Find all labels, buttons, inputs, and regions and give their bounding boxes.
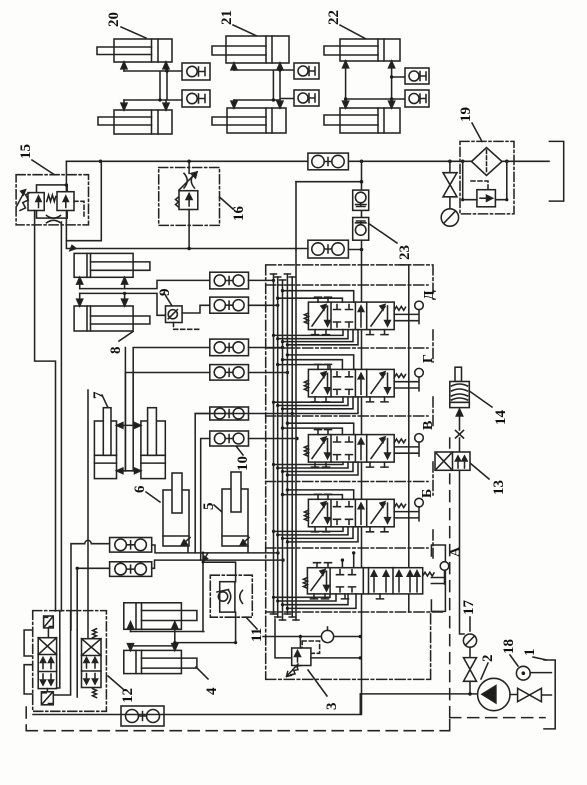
outer dashed boundary xyxy=(26,438,545,731)
cylinder 20b piston xyxy=(152,110,159,134)
wires below valve V xyxy=(274,462,359,475)
quick coupling box on main line xyxy=(308,153,349,170)
spring 16 xyxy=(176,197,179,207)
check valve box 20-1 xyxy=(182,63,210,80)
bus end bars top xyxy=(271,274,296,280)
block edge loop at left xyxy=(66,161,101,240)
flow regulator 16 xyxy=(159,161,247,250)
drain plug 18 xyxy=(501,639,551,680)
wires to valve G xyxy=(278,355,354,370)
directional valve D xyxy=(304,290,437,335)
wire y560 xyxy=(152,560,283,568)
svg-text:13: 13 xyxy=(491,480,507,495)
leader 21 xyxy=(233,25,259,37)
pilot check pair box B3 xyxy=(210,339,249,356)
cylinder 22b piston xyxy=(378,108,384,133)
cylinder 4a body xyxy=(124,603,182,630)
return line R xyxy=(400,265,409,612)
main return line xyxy=(66,160,549,162)
solenoid bottom 12a xyxy=(41,692,53,705)
A port stubs xyxy=(314,563,332,568)
pilot check pair box B6 xyxy=(210,431,251,471)
svg-text:15: 15 xyxy=(18,144,34,159)
svg-text:В: В xyxy=(421,421,436,430)
leader 16 xyxy=(220,197,234,209)
svg-text:10: 10 xyxy=(235,456,251,471)
solenoid valve block 12 xyxy=(24,611,136,712)
check valve box 21-1 xyxy=(294,63,319,79)
wire y553 xyxy=(152,545,278,553)
spring bottom 12b xyxy=(93,689,97,698)
wires below valve G xyxy=(195,397,358,414)
leader 5 xyxy=(214,505,222,512)
pair 7 channel arrows xyxy=(125,348,133,471)
svg-text:Г: Г xyxy=(421,354,436,363)
svg-text:1: 1 xyxy=(522,649,538,657)
leader 13 xyxy=(470,463,489,479)
cylinder pair 21 xyxy=(212,10,319,133)
valve 13 xyxy=(435,452,507,634)
check valve 9 xyxy=(157,289,210,330)
cylinder 8a piston xyxy=(87,253,91,277)
leader 23 xyxy=(369,224,397,244)
left valve arrow xyxy=(38,199,40,208)
cylinder 21b piston xyxy=(266,108,272,133)
cylinder 22a rod xyxy=(324,46,378,55)
wires B3 B4 to plunger pair 7 xyxy=(125,348,209,471)
accumulator valve 14 xyxy=(450,367,509,452)
long vertical x88 xyxy=(87,390,89,639)
pair 21 wires xyxy=(234,70,294,100)
tank bus line from main line xyxy=(361,161,363,714)
cylinder 8b rod xyxy=(91,316,150,324)
cylinder 22a body xyxy=(340,39,400,61)
leader 1 xyxy=(533,657,547,660)
block 12 left brackets xyxy=(24,630,33,694)
suction shut-off valve 1 xyxy=(510,649,551,702)
bypass wires xyxy=(463,161,507,199)
tank bracket top right xyxy=(549,141,563,201)
line 16 down xyxy=(188,210,190,249)
adjustable throttle 16 xyxy=(184,173,195,188)
check valve box 22-2 xyxy=(405,90,429,107)
wires to valve D xyxy=(278,291,354,302)
pair 4 port arrows xyxy=(131,629,175,631)
svg-text:19: 19 xyxy=(458,107,474,122)
cylinder 20a body xyxy=(114,39,172,62)
cylinder 21a rod xyxy=(212,46,266,55)
line into 16 xyxy=(188,161,190,173)
line y248 xyxy=(66,241,296,249)
cylinder 20b body xyxy=(114,110,172,134)
cylinder 21a piston xyxy=(266,36,272,63)
A spring right xyxy=(423,572,434,576)
box 16 dash-dot border xyxy=(159,168,220,226)
svg-text:Д: Д xyxy=(422,290,437,300)
relief valve 15 right square xyxy=(57,192,74,211)
pilot bus lines xyxy=(274,250,297,620)
svg-text:20: 20 xyxy=(106,12,122,27)
leader 22 xyxy=(340,25,366,39)
leader 19 xyxy=(472,123,482,141)
svg-text:16: 16 xyxy=(231,206,247,222)
cylinder pair 22 xyxy=(324,10,429,133)
leader 20 xyxy=(121,27,146,38)
svg-text:2: 2 xyxy=(480,655,496,663)
check valve box 20-2 xyxy=(182,90,210,107)
wires below valve D xyxy=(274,330,359,345)
lever D xyxy=(394,307,405,311)
leader 15 xyxy=(32,160,54,175)
svg-text:4: 4 xyxy=(204,687,220,695)
cylinder 21a body xyxy=(226,36,289,63)
gauge on line xyxy=(321,630,333,642)
cylinder 20a piston xyxy=(152,39,159,62)
pair 21 port arrows xyxy=(234,63,280,70)
section divider lines xyxy=(266,285,446,612)
cylinder 4b body xyxy=(124,650,182,673)
leader 9 xyxy=(164,293,172,306)
cylinder 22b body xyxy=(340,108,400,133)
cylinder 20b rod xyxy=(98,117,152,125)
svg-text:23: 23 xyxy=(397,245,413,260)
pair 22 wires xyxy=(346,61,405,108)
spring D left xyxy=(304,313,308,324)
line up into 14 with arrow xyxy=(459,412,461,430)
leader 6 xyxy=(146,492,160,502)
valve block dash-dot boundary xyxy=(266,265,446,680)
relief valve 3 xyxy=(275,619,362,710)
shut-off valve near filter xyxy=(443,161,457,208)
solenoid valve 12b xyxy=(82,639,102,688)
D port stubs top xyxy=(315,297,332,302)
leader 14 xyxy=(469,391,492,407)
junction dots on main line xyxy=(99,160,509,164)
pump 2 xyxy=(360,655,510,711)
shut-off valve below 17 xyxy=(464,648,477,694)
cylinder 7b xyxy=(141,421,165,479)
leader 11 xyxy=(246,617,257,629)
box 19 dash-dot border xyxy=(460,141,514,214)
leader 8 xyxy=(119,332,133,342)
pair 8 port arrows xyxy=(80,277,125,288)
pair 22 port arrows xyxy=(343,61,395,68)
throttle check unit 11 xyxy=(210,575,265,642)
plunger cylinder pair 7 xyxy=(91,348,165,479)
leader 10 xyxy=(236,446,243,455)
pair 8 wires xyxy=(80,280,210,288)
box 11 feed lines xyxy=(203,553,236,643)
tank bracket bottom right xyxy=(544,660,555,729)
solenoid top 12a xyxy=(44,616,54,628)
leader 3 xyxy=(308,670,327,696)
pilot check pair box B1 xyxy=(210,272,249,289)
bottom line to pump suction xyxy=(33,694,360,715)
svg-text:8: 8 xyxy=(108,347,124,355)
pilot check pair box B4 xyxy=(210,365,249,381)
svg-text:21: 21 xyxy=(219,10,235,25)
directional valve B xyxy=(304,489,435,532)
D port stubs bottom xyxy=(312,330,389,335)
cylinder 21b body xyxy=(227,108,286,133)
quick coupling box 2 xyxy=(296,240,363,258)
cylinder 22a piston xyxy=(378,39,384,61)
spring top 12b xyxy=(93,629,97,638)
check valve box 22-1 xyxy=(405,68,429,84)
check valve 23a xyxy=(353,190,369,210)
bus end bars bottom xyxy=(271,614,300,620)
wires to valve B xyxy=(283,490,354,499)
valve block 15 xyxy=(16,144,88,611)
spring between squares xyxy=(47,195,56,202)
cylinder 8a rod xyxy=(91,262,150,270)
check valve box 21-2 xyxy=(294,90,319,106)
svg-text:22: 22 xyxy=(326,10,342,25)
filter diamond xyxy=(472,148,503,176)
cylinder 21b rod xyxy=(212,117,266,125)
directional valve V xyxy=(304,421,436,467)
wires from B boxes to pilot bus xyxy=(249,280,298,438)
pilot dashed xyxy=(74,201,84,216)
plunger cylinder 5 xyxy=(201,472,249,546)
leader 12 xyxy=(108,676,123,689)
wires below valve A xyxy=(274,594,357,609)
pair 20 port arrows xyxy=(124,62,166,71)
cylinder 20a rod xyxy=(97,47,152,55)
wires to valve A xyxy=(342,553,353,568)
filter unit 19 xyxy=(458,107,514,214)
directional valve A xyxy=(303,545,463,611)
pilot check pair box B5 xyxy=(210,407,249,420)
wires below valve B xyxy=(274,527,359,542)
pressure gauge 17 xyxy=(461,600,477,648)
pair 20 wires xyxy=(124,71,182,100)
cylinder pair 8 xyxy=(74,253,210,354)
pressure gauge near filter xyxy=(441,209,458,226)
svg-text:17: 17 xyxy=(461,600,477,616)
regulator square 16 xyxy=(179,191,198,210)
solenoid valve 12a xyxy=(38,638,56,689)
pilot check pair box B2 xyxy=(210,297,249,313)
svg-text:7: 7 xyxy=(91,391,107,399)
line 15 drain xyxy=(60,222,62,611)
pair 4 wires xyxy=(131,632,236,646)
cylinder 22b rod xyxy=(324,115,378,125)
flow arrow on line y248 xyxy=(70,246,76,251)
svg-text:12: 12 xyxy=(120,688,136,703)
plunger cylinder 6 xyxy=(132,473,190,546)
gauge line with end bar xyxy=(263,636,360,638)
9 drain dashed xyxy=(174,323,200,330)
cylinder pair 4 xyxy=(124,603,237,695)
A step bracket and lever xyxy=(431,545,445,611)
x plug mark xyxy=(456,431,464,439)
leader 4 xyxy=(196,667,208,679)
check pair box B8 xyxy=(110,562,152,577)
cylinder 7a xyxy=(94,421,116,479)
leader 2 xyxy=(481,663,488,679)
svg-text:14: 14 xyxy=(493,410,509,426)
leader 17 xyxy=(469,617,471,631)
cylinder 8a body xyxy=(74,253,133,277)
box 15 inner rect xyxy=(37,185,68,218)
svg-text:3: 3 xyxy=(324,703,340,711)
wires to valve V xyxy=(283,423,354,434)
leader 18 xyxy=(510,655,518,666)
throttle arcs xyxy=(47,216,61,223)
box 15 dash-dot border xyxy=(16,175,88,225)
directional valve G xyxy=(304,354,436,402)
check valve 23b xyxy=(353,218,369,241)
leader 7 xyxy=(102,395,108,408)
right valve arrow xyxy=(65,199,67,208)
left spring zigzag xyxy=(20,193,29,211)
B8 left wire xyxy=(77,568,109,630)
vertical x296 xyxy=(295,182,297,250)
cylinder pair 20 xyxy=(97,12,210,134)
cylinder 8b body xyxy=(74,306,133,331)
branch line y181.7 xyxy=(296,181,362,183)
arrow jog on wire xyxy=(204,553,208,560)
9 out wire xyxy=(182,305,210,313)
check pair box 12 out xyxy=(121,706,164,726)
line from 15 down xyxy=(35,211,56,612)
svg-text:18: 18 xyxy=(501,639,517,654)
relief valve 15 left square xyxy=(28,193,44,211)
wires from B5 B6 down xyxy=(195,414,210,561)
bypass valve 19 xyxy=(477,190,496,207)
block 12 internal wires xyxy=(53,611,77,697)
check pair box B7 xyxy=(110,538,152,553)
svg-text:Б: Б xyxy=(420,489,435,498)
B7 left wire with hop xyxy=(71,540,110,630)
cylinder 8b piston xyxy=(87,306,91,331)
